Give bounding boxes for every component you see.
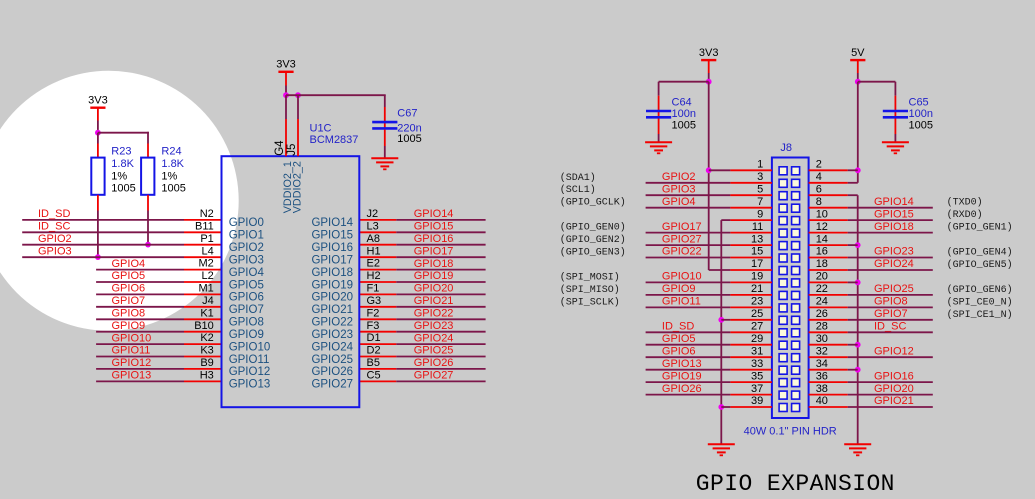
node VDDIO2_1 junction [283,92,289,98]
svg-text:H3: H3 [200,370,214,382]
svg-text:M1: M1 [199,283,214,295]
wire net GPIO3 to U1C pin L4 [22,256,184,258]
svg-text:(GPIO_GEN5): (GPIO_GEN5) [947,259,1013,271]
svg-text:GPIO24: GPIO24 [874,258,914,270]
connector J8 pin pads [779,167,800,412]
wire J8 pin 14 [809,244,848,246]
svg-text:GPIO24: GPIO24 [414,332,454,344]
node 3V3/C64 junction [706,79,712,85]
pin stub K1 [184,318,222,320]
svg-text:ID_SD: ID_SD [662,321,694,333]
wire net ID_SD to U1C pin N2 [22,219,184,221]
wire J8 pin 6 [809,194,848,196]
svg-text:GPIO21: GPIO21 [311,304,353,316]
svg-text:36: 36 [816,370,828,382]
node GND/pin39 junction [718,404,724,410]
svg-text:L3: L3 [367,220,379,232]
svg-text:J8: J8 [780,142,792,154]
svg-text:GPIO10: GPIO10 [662,271,702,283]
svg-text:GPIO3: GPIO3 [38,245,72,257]
svg-text:GPIO8: GPIO8 [229,317,264,329]
wire 3V3 junction down to R23 top [97,133,99,144]
pin stub H2 [359,281,396,283]
svg-text:GPIO17: GPIO17 [662,221,702,233]
svg-text:GPIO26: GPIO26 [662,383,702,395]
svg-text:100n: 100n [672,108,696,120]
svg-text:N2: N2 [200,208,214,220]
pin stub B10 [184,331,222,333]
svg-text:GPIO15: GPIO15 [311,230,353,242]
wire net GPIO6 to U1C pin M1 [96,293,184,295]
svg-text:GPIO23: GPIO23 [414,320,454,332]
svg-text:GPIO14: GPIO14 [414,208,454,220]
svg-text:GPIO8: GPIO8 [112,308,146,320]
pin stub M2 [184,269,222,271]
wire net GPIO9 to U1C pin B10 [96,331,184,333]
svg-text:GPIO5: GPIO5 [112,270,146,282]
svg-text:M2: M2 [199,258,214,270]
svg-text:1005: 1005 [111,182,135,194]
svg-text:GPIO18: GPIO18 [414,258,454,270]
svg-text:F3: F3 [367,320,380,332]
svg-text:GPIO11: GPIO11 [229,354,270,366]
wire J8 pin 16 net GPIO23 [809,257,848,259]
svg-text:J5: J5 [286,144,298,156]
svg-text:GPIO13: GPIO13 [229,379,271,391]
wire 3V3 to C64 [659,81,709,83]
wire J8 pin 1 [709,169,731,171]
svg-text:GPIO5: GPIO5 [229,279,264,291]
svg-text:K2: K2 [200,332,213,344]
svg-text:11: 11 [752,221,763,233]
wire net GPIO7 to U1C pin J4 [96,306,184,308]
svg-text:29: 29 [751,333,763,345]
svg-text:GPIO EXPANSION: GPIO EXPANSION [696,471,895,497]
svg-text:26: 26 [816,308,828,320]
pin stub K3 [184,356,222,358]
wire net GPIO20 from U1C pin F1 [396,293,485,295]
svg-text:6: 6 [816,183,822,195]
pin stub F1 [359,293,396,295]
svg-text:22: 22 [816,283,828,295]
svg-text:GPIO3: GPIO3 [662,183,696,195]
svg-text:GPIO8: GPIO8 [874,296,908,308]
svg-text:15: 15 [751,246,763,258]
svg-text:(GPIO_GEN1): (GPIO_GEN1) [947,222,1013,234]
svg-text:GPIO16: GPIO16 [874,370,914,382]
wire net GPIO22 from U1C pin F2 [396,318,485,320]
svg-text:100n: 100n [909,108,933,120]
svg-text:J2: J2 [367,208,379,220]
svg-text:37: 37 [751,383,763,395]
svg-text:5: 5 [757,183,763,195]
pin stub B5 [359,368,396,370]
svg-text:20: 20 [816,271,828,283]
connector J8 body [772,158,809,419]
svg-text:5V: 5V [851,47,865,59]
svg-text:GPIO4: GPIO4 [662,196,696,208]
svg-text:P1: P1 [200,233,213,245]
svg-text:GPIO27: GPIO27 [662,233,702,245]
svg-text:GPIO27: GPIO27 [414,370,454,382]
svg-text:3V3: 3V3 [88,94,108,106]
svg-text:14: 14 [816,233,828,245]
svg-text:28: 28 [816,321,828,333]
svg-text:(GPIO_GEN6): (GPIO_GEN6) [947,284,1013,296]
svg-text:1005: 1005 [397,133,421,145]
svg-text:GPIO12: GPIO12 [112,357,152,369]
wire 5V to C65 [858,81,896,83]
pin stub E2 [359,269,396,271]
svg-text:33: 33 [751,358,763,370]
svg-text:GPIO10: GPIO10 [112,332,152,344]
svg-text:GPIO9: GPIO9 [112,320,146,332]
svg-text:8: 8 [816,196,822,208]
node GND/pin25 junction [718,317,724,323]
svg-text:VDDIO2_2: VDDIO2_2 [292,161,304,213]
svg-text:K1: K1 [200,307,213,319]
wire net GPIO21 from U1C pin G3 [396,306,485,308]
wire net GPIO24 from U1C pin D1 [396,343,485,345]
wire J8 pin 32 net GPIO12 [809,356,848,358]
svg-text:ID_SC: ID_SC [38,221,70,233]
svg-text:(GPIO_GCLK): (GPIO_GCLK) [560,197,626,209]
wire J8 pin 15 net GPIO22 [646,257,731,259]
pin stub J5 VDDIO2_2 [297,95,299,119]
wire J8 pin 22 net GPIO25 [809,294,848,296]
wire J8 pin 28 net ID_SC [809,331,848,333]
svg-text:U1C: U1C [310,123,332,135]
pin stub G4 VDDIO2_1 [285,95,287,119]
svg-text:GPIO25: GPIO25 [311,354,353,366]
node R24/GPIO2 junction [145,242,151,248]
wire J8 pin 20 [809,281,848,283]
capacitor C67 [384,95,386,107]
wire J8 pin 34 [809,369,848,371]
node 5V/C65 junction [855,79,861,85]
svg-text:H1: H1 [367,245,381,257]
svg-text:2: 2 [816,159,822,171]
svg-text:ID_SD: ID_SD [38,208,70,220]
svg-text:GPIO2: GPIO2 [38,233,72,245]
svg-text:GPIO9: GPIO9 [662,283,696,295]
pin stub P1 [184,244,222,246]
pin stub L4 [184,256,222,258]
wire J8 pin 23 net GPIO11 [646,306,731,308]
svg-text:19: 19 [751,271,763,283]
node VDDIO2_2 junction [295,92,301,98]
wire J8 pin 40 net GPIO21 [809,406,848,408]
svg-text:GPIO14: GPIO14 [874,196,914,208]
wire net GPIO16 from U1C pin A8 [396,244,485,246]
wire net GPIO26 from U1C pin B5 [396,368,485,370]
svg-text:GPIO16: GPIO16 [311,242,353,254]
node GND/pin30 junction [855,342,861,348]
svg-text:A8: A8 [367,233,380,245]
svg-text:1: 1 [757,159,763,171]
svg-text:GPIO17: GPIO17 [414,245,454,257]
wire GND-left rail pin9 to ground [720,220,722,444]
svg-text:GPIO4: GPIO4 [112,258,146,270]
wire net GPIO13 to U1C pin H3 [96,380,184,382]
svg-text:C64: C64 [672,96,692,108]
svg-text:GPIO18: GPIO18 [311,267,353,279]
wire J8 pin 38 net GPIO20 [809,394,848,396]
wire net GPIO23 from U1C pin F3 [396,331,485,333]
svg-text:GPIO22: GPIO22 [662,246,702,258]
ground below J8 left rail [708,443,735,445]
svg-text:(SPI_MISO): (SPI_MISO) [560,284,620,296]
svg-text:GPIO20: GPIO20 [874,383,914,395]
svg-text:GPIO16: GPIO16 [414,233,454,245]
wire net GPIO14 from U1C pin J2 [396,219,485,221]
svg-text:GPIO23: GPIO23 [874,246,914,258]
svg-text:D2: D2 [367,345,381,357]
svg-text:3V3: 3V3 [276,59,296,71]
pin stub F2 [359,318,396,320]
svg-text:GPIO12: GPIO12 [229,366,271,378]
wire J8 pin 18 net GPIO24 [809,269,848,271]
wire 3V3 rail down to J8 pin1/pin17 [708,82,710,270]
svg-text:GPIO27: GPIO27 [311,379,353,391]
resistor R23 [91,158,104,195]
svg-text:GPIO6: GPIO6 [112,283,146,295]
svg-text:K3: K3 [200,345,213,357]
svg-text:21: 21 [751,283,763,295]
resistor R24 [141,158,154,195]
svg-text:1.8K: 1.8K [111,158,134,170]
pin stub M1 [184,293,222,295]
svg-text:GPIO26: GPIO26 [414,357,454,369]
svg-text:GPIO17: GPIO17 [311,255,353,267]
wire J8 pin 19 net GPIO10 [646,281,731,283]
svg-text:J4: J4 [202,295,214,307]
wire J8 pin 24 net GPIO8 [809,306,848,308]
svg-text:13: 13 [751,233,763,245]
svg-text:GPIO20: GPIO20 [414,283,454,295]
wire J8 pin 21 net GPIO9 [646,294,731,296]
svg-text:GPIO11: GPIO11 [662,296,701,308]
wire J8 pin 29 net GPIO5 [646,344,731,346]
wire 3V3 to C67 [286,94,386,96]
wire J8 pin 27 net ID_SD [646,331,731,333]
pin stub B9 [184,368,222,370]
svg-text:GPIO26: GPIO26 [311,366,353,378]
pin stub F3 [359,331,396,333]
svg-text:GPIO7: GPIO7 [874,308,908,320]
svg-text:4: 4 [816,171,822,183]
pin stub D2 [359,356,396,358]
svg-text:GPIO13: GPIO13 [112,370,152,382]
svg-text:23: 23 [751,296,763,308]
pin stub D1 [359,343,396,345]
wire net GPIO11 to U1C pin K3 [96,356,184,358]
svg-text:GPIO0: GPIO0 [229,217,264,229]
wire J8 pin 13 net GPIO27 [646,244,731,246]
svg-text:1005: 1005 [672,119,696,131]
node R23/GPIO3 junction [95,254,101,260]
pin stub K2 [184,343,222,345]
svg-text:(RXD0): (RXD0) [947,209,983,221]
pin stub G3 [359,306,396,308]
svg-text:34: 34 [816,358,828,370]
svg-text:GPIO6: GPIO6 [662,345,696,357]
svg-text:39: 39 [751,395,763,407]
svg-text:L4: L4 [202,245,214,257]
wire J8 pin 12 net GPIO18 [809,232,848,234]
wire J8 pin 31 net GPIO6 [646,356,731,358]
pin stub B11 [184,231,222,233]
wire J8 pin 5 net GPIO3 [646,194,731,196]
pin stub L2 [184,281,222,283]
svg-text:ID_SC: ID_SC [874,321,906,333]
svg-text:24: 24 [816,296,828,308]
svg-text:10: 10 [816,208,828,220]
wire net GPIO27 from U1C pin C5 [396,380,485,382]
svg-text:9: 9 [757,208,763,220]
svg-text:(GPIO_GEN0): (GPIO_GEN0) [560,222,626,234]
svg-text:27: 27 [751,321,763,333]
svg-text:(GPIO_GEN3): (GPIO_GEN3) [560,247,626,259]
wire J8 pin 17 [709,269,731,271]
node 3V3/pin1 junction [706,167,712,173]
wire 3V3 junction to R24 top [98,132,149,134]
svg-text:25: 25 [751,308,763,320]
svg-text:1%: 1% [111,170,127,182]
pin stub A8 [359,244,396,246]
pin stub C5 [359,380,396,382]
white spotlight circle [0,71,239,331]
pin stub J2 [359,219,396,221]
svg-text:GPIO22: GPIO22 [311,317,353,329]
svg-text:1%: 1% [161,170,177,182]
wire J8 pin 10 net GPIO15 [809,219,848,221]
svg-text:R23: R23 [111,146,131,158]
wire 5V rail down to J8 pin2/pin4 [857,82,859,183]
svg-text:L2: L2 [202,270,214,282]
wire J8 pin 39 [721,406,730,408]
svg-text:GPIO23: GPIO23 [311,329,353,341]
svg-text:B9: B9 [200,357,213,369]
svg-text:1005: 1005 [161,182,185,194]
wire net GPIO25 from U1C pin D2 [396,356,485,358]
wire net GPIO12 to U1C pin B9 [96,368,184,370]
svg-text:F2: F2 [367,307,380,319]
svg-text:G3: G3 [367,295,382,307]
svg-text:E2: E2 [367,258,380,270]
wire net GPIO2 to U1C pin P1 [22,244,184,246]
svg-text:7: 7 [757,196,763,208]
pin stub J4 [184,306,222,308]
svg-text:1.8K: 1.8K [161,158,184,170]
svg-text:GPIO21: GPIO21 [874,395,914,407]
wire J8 pin 35 net GPIO19 [646,381,731,383]
svg-text:(SPI_SCLK): (SPI_SCLK) [560,296,620,308]
svg-text:(GPIO_GEN4): (GPIO_GEN4) [947,247,1013,259]
svg-text:12: 12 [816,221,828,233]
svg-text:GPIO25: GPIO25 [414,345,454,357]
wire J8 pin 8 net GPIO14 [809,207,848,209]
wire J8 pin 11 net GPIO17 [646,232,731,234]
wire J8 pin 9 [721,219,730,221]
svg-text:GPIO10: GPIO10 [229,341,271,353]
svg-text:C67: C67 [397,107,417,119]
svg-text:GPIO9: GPIO9 [229,329,264,341]
svg-text:(SCL1): (SCL1) [560,184,596,196]
capacitor C64 [658,82,660,96]
wire net GPIO18 from U1C pin E2 [396,269,485,271]
svg-text:GPIO19: GPIO19 [311,279,353,291]
pin stub H1 [359,256,396,258]
svg-text:GPIO18: GPIO18 [874,221,914,233]
node GND/pin34 junction [855,367,861,373]
wire J8 pin 26 net GPIO7 [809,319,848,321]
pin stub N2 [184,219,222,221]
svg-text:40: 40 [816,395,828,407]
wire net GPIO10 to U1C pin K2 [96,343,184,345]
node 3V3/R23/R24 junction [95,130,101,136]
svg-text:GPIO12: GPIO12 [874,345,914,357]
wire R24 bottom to GPIO2 net [147,195,149,211]
wire J8 pin 2 [809,169,848,171]
pin stub L3 [359,231,396,233]
node GND/pin14 junction [855,242,861,248]
svg-text:GPIO13: GPIO13 [662,358,702,370]
svg-text:3V3: 3V3 [699,47,719,59]
svg-text:GPIO7: GPIO7 [112,295,146,307]
svg-text:GPIO5: GPIO5 [662,333,696,345]
svg-text:(SDA1): (SDA1) [560,172,596,184]
wire net GPIO4 to U1C pin M2 [96,269,184,271]
svg-text:(TXD0): (TXD0) [947,197,983,209]
svg-text:30: 30 [816,333,828,345]
wire net GPIO15 from U1C pin L3 [396,231,485,233]
svg-text:GPIO22: GPIO22 [414,308,454,320]
svg-text:GPIO19: GPIO19 [414,270,454,282]
svg-text:B5: B5 [367,357,380,369]
svg-text:(SPI_MOSI): (SPI_MOSI) [560,271,620,283]
svg-text:GPIO21: GPIO21 [414,295,454,307]
svg-text:GPIO7: GPIO7 [229,304,264,316]
svg-text:GPIO11: GPIO11 [112,345,151,357]
wire J8 pin 30 [809,344,848,346]
wire net GPIO19 from U1C pin H2 [396,281,485,283]
svg-text:35: 35 [751,370,763,382]
svg-text:GPIO2: GPIO2 [662,171,696,183]
svg-text:16: 16 [816,246,828,258]
ground below J8 right rail [844,443,871,445]
wire J8 pin 25 [721,319,730,321]
wire R23 bottom to GPIO3 net [97,195,99,211]
svg-text:40W 0.1" PIN HDR: 40W 0.1" PIN HDR [744,425,837,437]
svg-text:(SPI_CE1_N): (SPI_CE1_N) [947,309,1013,321]
svg-text:32: 32 [816,345,828,357]
svg-text:D1: D1 [367,332,381,344]
svg-text:38: 38 [816,383,828,395]
ground below C67 [371,157,398,159]
capacitor C65 [894,82,896,96]
svg-text:GPIO15: GPIO15 [874,208,914,220]
svg-text:3: 3 [757,171,763,183]
pin stub H3 [184,380,222,382]
wire J8 pin 36 net GPIO16 [809,381,848,383]
wire J8 pin 3 net GPIO2 [646,182,731,184]
wire J8 pin 4 [809,182,848,184]
svg-text:GPIO20: GPIO20 [311,292,353,304]
svg-text:31: 31 [751,345,763,357]
svg-text:1005: 1005 [909,119,933,131]
svg-text:GPIO6: GPIO6 [229,292,264,304]
